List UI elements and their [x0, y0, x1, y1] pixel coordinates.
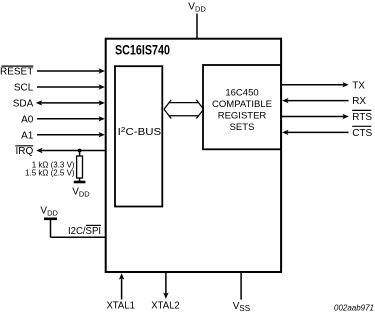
- wire IRQ (output, arrow to left): [41, 150, 105, 152]
- svg-text:XTAL2: XTAL2: [151, 301, 180, 312]
- RESET overline: [2, 65, 34, 67]
- RTS overline: [352, 109, 371, 111]
- svg-text:16C450: 16C450: [225, 87, 258, 98]
- svg-text:SETS: SETS: [230, 122, 255, 133]
- svg-text:IRQ: IRQ: [16, 146, 34, 157]
- svg-text:RTS: RTS: [352, 112, 372, 123]
- svg-text:I2C/SPI: I2C/SPI: [68, 226, 101, 237]
- VDD rail symbol (left supply): [44, 218, 57, 221]
- CTS overline: [352, 125, 371, 127]
- junction dot on IRQ wire: [78, 149, 82, 153]
- svg-text:002aab971: 002aab971: [334, 303, 374, 313]
- wire TX (output): [282, 84, 345, 86]
- svg-text:SCL: SCL: [14, 83, 34, 94]
- wire RTS (output): [282, 116, 345, 118]
- svg-text:SC16IS740: SC16IS740: [115, 43, 170, 58]
- block I2C-BUS: [115, 66, 162, 206]
- svg-text:1.5 kΩ (2.5 V): 1.5 kΩ (2.5 V): [25, 169, 75, 178]
- wire CTS (input): [286, 131, 349, 133]
- svg-text:SDA: SDA: [13, 99, 34, 110]
- svg-text:VDD: VDD: [188, 2, 206, 14]
- block 16C450 compatible register sets: [203, 65, 281, 149]
- IRQ overline: [15, 145, 33, 147]
- VDD rail symbol under resistor: [74, 181, 86, 184]
- svg-text:COMPATIBLE: COMPATIBLE: [212, 99, 272, 110]
- svg-text:REGISTER: REGISTER: [218, 110, 267, 121]
- wire dot to resistor: [79, 151, 81, 157]
- wire A0: [37, 118, 100, 120]
- wire resistor to VDD rail: [79, 178, 81, 182]
- wire top VDD to chip: [196, 14, 198, 39]
- wire RX (input): [286, 100, 349, 102]
- wire VSS: [240, 273, 242, 300]
- svg-text:VDD: VDD: [40, 205, 58, 217]
- svg-text:CTS: CTS: [352, 128, 372, 139]
- wire SCL: [37, 86, 100, 88]
- wire RESET: [37, 70, 100, 72]
- chip outline U1 SC16IS740: [106, 39, 281, 272]
- svg-text:VSS: VSS: [233, 301, 250, 313]
- svg-text:I2C-BUS: I2C-BUS: [118, 125, 162, 138]
- SPI overline: [86, 224, 101, 226]
- wire SDA (bidirectional): [40, 102, 100, 104]
- data bus double arrow between blocks: [164, 100, 204, 119]
- resistor R1 (IRQ pull-up): [77, 156, 83, 178]
- wire XTAL2 (output, arrow down): [165, 273, 167, 295]
- svg-text:TX: TX: [352, 80, 365, 91]
- wire I2C/SPI to chip: [51, 236, 106, 238]
- wire XTAL1 (input, arrow up): [121, 277, 123, 300]
- svg-text:RX: RX: [352, 96, 366, 107]
- svg-text:RESET: RESET: [0, 67, 33, 78]
- svg-text:A0: A0: [21, 114, 34, 125]
- svg-text:A1: A1: [21, 130, 34, 141]
- svg-text:VDD: VDD: [72, 187, 90, 199]
- svg-text:XTAL1: XTAL1: [106, 301, 135, 312]
- wire VDD down: [50, 219, 52, 238]
- wire A1: [37, 134, 100, 136]
